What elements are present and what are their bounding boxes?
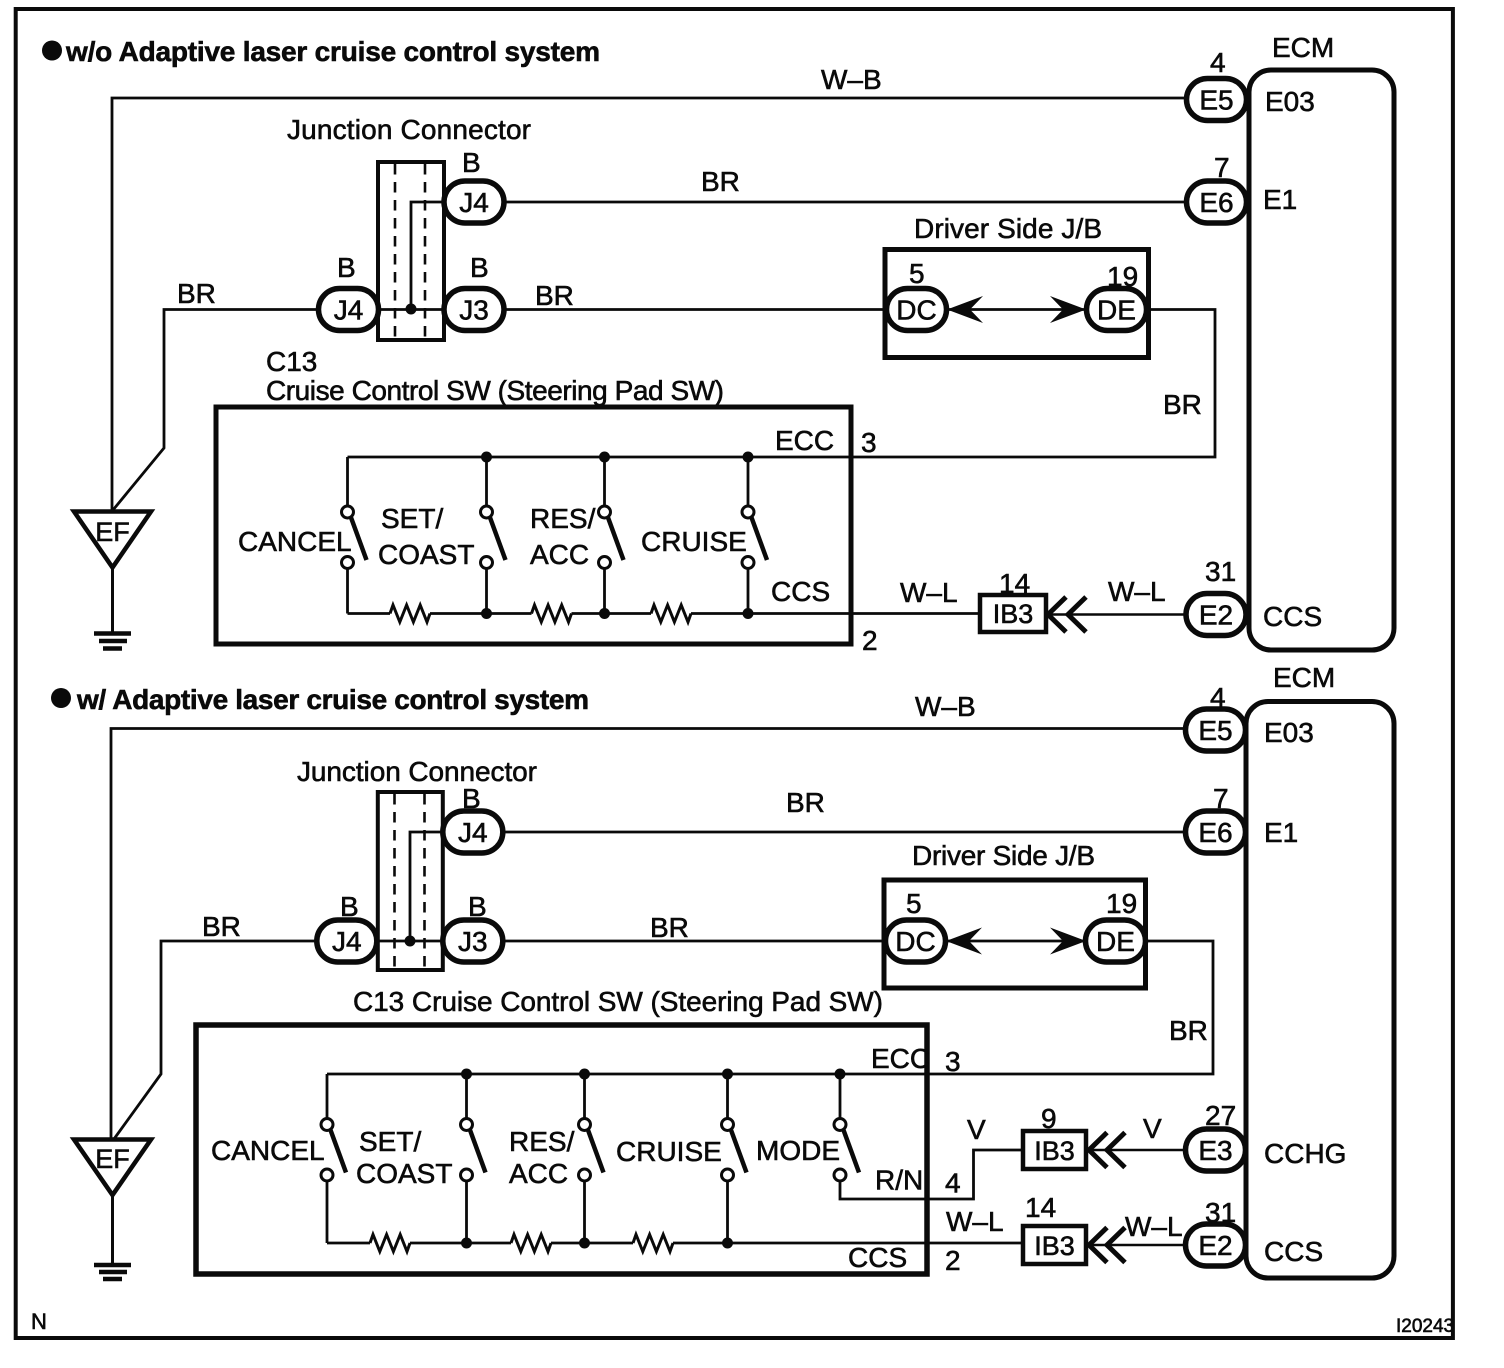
svg-text:J3: J3 — [459, 295, 489, 326]
svg-text:5: 5 — [906, 888, 922, 919]
wire RES lower — [583, 1181, 586, 1243]
svg-text:COAST: COAST — [378, 539, 474, 570]
wire W-B from EF ground to ECM E5 — [112, 98, 1186, 511]
svg-text:4: 4 — [945, 1168, 961, 1199]
chevron arrows — [1089, 1228, 1125, 1263]
relay block IB3 (V) — [1023, 1131, 1086, 1169]
svg-text:J4: J4 — [458, 817, 488, 848]
wire — [430, 612, 532, 615]
node dot SET — [461, 1069, 472, 1080]
wire BR from EF to J4 left — [113, 310, 319, 511]
svg-text:CANCEL: CANCEL — [238, 526, 352, 557]
svg-text:J4: J4 — [334, 295, 364, 326]
wire — [572, 612, 652, 615]
svg-text:V: V — [1143, 1113, 1162, 1144]
node dot — [722, 1238, 733, 1249]
svg-text:DC: DC — [895, 926, 935, 957]
svg-text:CRUISE: CRUISE — [641, 526, 747, 557]
connector J4 (left) — [319, 289, 379, 331]
svg-text:CCHG: CCHG — [1264, 1138, 1346, 1169]
switch CANCEL — [321, 1119, 346, 1182]
svg-text:B: B — [462, 783, 481, 814]
svg-text:BR: BR — [535, 280, 574, 311]
ECM box — [1249, 70, 1394, 650]
wire CANCEL lower — [346, 569, 349, 614]
resistor R1 — [390, 605, 430, 622]
svg-text:W–L: W–L — [946, 1206, 1004, 1237]
svg-text:ECM: ECM — [1273, 662, 1335, 693]
wire SET lower — [485, 569, 488, 614]
wire CCS bus with resistors — [348, 612, 391, 615]
switch SET/COAST — [461, 1119, 486, 1182]
wire IB3 to E3 (V) — [1087, 1149, 1186, 1152]
wire IB3 to E2 (W-L) — [1047, 613, 1186, 616]
connector J4 (left) — [317, 920, 377, 962]
wire IB3 to E2 (W-L) — [1087, 1244, 1186, 1247]
node dot — [579, 1238, 590, 1249]
svg-text:MODE: MODE — [756, 1135, 840, 1166]
svg-text:W–L: W–L — [1108, 576, 1166, 607]
svg-text:31: 31 — [1205, 556, 1236, 587]
svg-text:E6: E6 — [1198, 817, 1232, 848]
section title bullet — [42, 41, 62, 61]
wire — [410, 1242, 511, 1245]
svg-text:IB3: IB3 — [1034, 1231, 1075, 1261]
svg-text:J4: J4 — [459, 187, 489, 218]
wire CANCEL drop — [326, 1074, 329, 1119]
connector DC — [886, 920, 946, 962]
arrowhead right — [1050, 296, 1086, 323]
wire RES drop — [603, 457, 606, 506]
svg-text:ECM: ECM — [1272, 32, 1334, 63]
wire — [551, 1242, 633, 1245]
svg-text:BR: BR — [202, 911, 241, 942]
connector DE — [1087, 289, 1147, 331]
svg-text:IB3: IB3 — [993, 599, 1034, 629]
svg-text:W–L: W–L — [900, 577, 958, 608]
switch MODE — [834, 1119, 859, 1182]
svg-text:14: 14 — [999, 568, 1030, 599]
connector E2 — [1186, 594, 1246, 636]
switch CANCEL — [342, 506, 367, 569]
switch SET/COAST — [481, 506, 506, 569]
svg-text:ACC: ACC — [530, 539, 589, 570]
node dot — [481, 608, 492, 619]
svg-text:CCS: CCS — [848, 1242, 907, 1273]
svg-text:SET/: SET/ — [381, 503, 443, 534]
switch RES/ACC — [599, 506, 624, 569]
wire CRUISE lower — [726, 1181, 729, 1243]
wire CANCEL lower — [326, 1181, 329, 1243]
arrowhead left — [946, 928, 982, 955]
svg-text:B: B — [468, 891, 487, 922]
svg-text:B: B — [462, 147, 481, 178]
svg-text:RES/: RES/ — [509, 1126, 575, 1157]
wire EF stem — [111, 1195, 114, 1265]
svg-text:I20243: I20243 — [1396, 1316, 1454, 1337]
svg-text:BR: BR — [701, 166, 740, 197]
node dot — [461, 1238, 472, 1249]
switch CRUISE — [742, 506, 767, 569]
switch CRUISE — [722, 1119, 747, 1182]
wire inside junction connector — [411, 202, 444, 309]
junction connector body — [378, 162, 444, 340]
ground EF triangle — [74, 512, 151, 568]
svg-text:w/ Adaptive laser cruise contr: w/ Adaptive laser cruise control system — [76, 684, 589, 715]
wire SET drop — [485, 457, 488, 506]
svg-text:DE: DE — [1097, 295, 1136, 326]
wire RES lower — [603, 569, 606, 614]
connector E5 — [1186, 709, 1246, 751]
label RES/ACC — [530, 503, 596, 570]
svg-text:ECC: ECC — [775, 425, 834, 456]
junction block box — [885, 250, 1149, 358]
svg-text:w/o Adaptive laser cruise cont: w/o Adaptive laser cruise control system — [65, 36, 600, 67]
svg-text:7: 7 — [1214, 152, 1230, 183]
wire BR from EF to J4 left — [114, 941, 317, 1139]
resistor R3 — [651, 605, 691, 622]
arrowhead right — [1050, 928, 1086, 955]
svg-text:BR: BR — [650, 912, 689, 943]
wire CRUISE drop — [747, 457, 750, 506]
svg-text:E6: E6 — [1199, 187, 1233, 218]
svg-text:BR: BR — [177, 278, 216, 309]
wire J3 to DC (BR) — [503, 940, 887, 943]
node dot RES — [579, 1069, 590, 1080]
svg-text:14: 14 — [1025, 1192, 1056, 1223]
node dot CRUISE — [743, 452, 754, 463]
wire MODE drop — [839, 1074, 842, 1119]
svg-text:5: 5 — [909, 258, 925, 289]
cruise control switch box C13 — [216, 407, 851, 644]
node junction dot — [405, 936, 416, 947]
svg-text:19: 19 — [1106, 888, 1137, 919]
node junction dot — [406, 304, 417, 315]
chevron arrows — [1048, 597, 1086, 632]
label SET/COAST — [356, 1126, 452, 1189]
svg-text:J4: J4 — [332, 926, 362, 957]
svg-text:E03: E03 — [1265, 86, 1315, 117]
chevron arrows — [1089, 1133, 1125, 1168]
resistor R1 — [370, 1235, 410, 1252]
relay block IB3 (W-L) — [1023, 1226, 1086, 1264]
svg-text:2: 2 — [862, 625, 878, 656]
svg-text:E1: E1 — [1263, 184, 1297, 215]
svg-text:EF: EF — [95, 1144, 130, 1174]
svg-text:CANCEL: CANCEL — [211, 1135, 325, 1166]
svg-text:W–B: W–B — [821, 64, 882, 95]
svg-text:B: B — [340, 891, 359, 922]
connector E6 — [1187, 181, 1247, 223]
wire CANCEL drop — [346, 457, 349, 506]
wire R/N from MODE — [840, 1150, 1023, 1199]
connector DC — [887, 289, 947, 331]
svg-text:E5: E5 — [1199, 85, 1233, 116]
svg-text:CRUISE: CRUISE — [616, 1136, 722, 1167]
arrowhead left — [947, 296, 983, 323]
svg-text:Driver Side J/B: Driver Side J/B — [912, 840, 1095, 871]
wire CRUISE drop — [726, 1074, 729, 1119]
svg-text:Cruise Control SW (Steering Pa: Cruise Control SW (Steering Pad SW) — [266, 375, 724, 406]
ground EF triangle — [74, 1140, 151, 1196]
svg-text:ECC: ECC — [871, 1043, 930, 1074]
relay block IB3 — [980, 595, 1046, 632]
svg-text:E5: E5 — [1198, 715, 1232, 746]
wire J4 to ECM E6 (BR) — [504, 201, 1186, 204]
connector J4 (top) — [443, 811, 503, 853]
wire CCS bus with resistors — [327, 1242, 370, 1245]
wire CRUISE lower — [747, 569, 750, 614]
svg-text:J3: J3 — [458, 926, 488, 957]
wire ECC bus — [327, 941, 1213, 1074]
connector E3 — [1186, 1129, 1246, 1171]
svg-text:BR: BR — [1169, 1015, 1208, 1046]
node dot — [599, 608, 610, 619]
connector E5 — [1187, 79, 1247, 121]
svg-text:W–L: W–L — [1125, 1211, 1183, 1242]
connector E2 — [1186, 1224, 1246, 1266]
svg-text:3: 3 — [861, 427, 877, 458]
wire EF stem — [111, 568, 114, 634]
svg-text:EF: EF — [95, 517, 130, 547]
junction block box — [884, 880, 1146, 988]
junction connector body — [378, 792, 443, 970]
connector J3 — [444, 289, 504, 331]
wire inside junction connector — [410, 832, 443, 941]
wire CCS to IB3 — [691, 612, 980, 615]
wire CCS to IB3 — [673, 1242, 1023, 1245]
svg-text:DC: DC — [896, 295, 936, 326]
ground symbol — [94, 634, 131, 649]
svg-text:C13: C13 — [266, 346, 317, 377]
svg-text:E3: E3 — [1198, 1135, 1232, 1166]
svg-text:27: 27 — [1205, 1100, 1236, 1131]
connector DE — [1086, 920, 1146, 962]
svg-text:BR: BR — [1163, 389, 1202, 420]
wire ECC bus — [348, 310, 1216, 458]
connector J3 — [443, 920, 503, 962]
svg-text:B: B — [337, 252, 356, 283]
svg-text:4: 4 — [1210, 47, 1226, 78]
node dot — [743, 608, 754, 619]
svg-text:V: V — [967, 1114, 986, 1145]
svg-text:ACC: ACC — [509, 1158, 568, 1189]
svg-text:CCS: CCS — [1263, 601, 1322, 632]
label RES/ACC — [509, 1126, 575, 1189]
connector J4 (top) — [444, 181, 504, 223]
node dot RES — [599, 452, 610, 463]
svg-text:E2: E2 — [1199, 600, 1233, 631]
svg-text:COAST: COAST — [356, 1158, 452, 1189]
svg-text:9: 9 — [1041, 1103, 1057, 1134]
svg-text:CCS: CCS — [1264, 1236, 1323, 1267]
svg-text:IB3: IB3 — [1034, 1136, 1075, 1166]
svg-text:E03: E03 — [1264, 717, 1314, 748]
section title bullet — [51, 688, 71, 708]
svg-text:7: 7 — [1213, 783, 1229, 814]
svg-text:RES/: RES/ — [530, 503, 596, 534]
wire SET lower — [465, 1181, 468, 1243]
cruise control switch box C13 — [196, 1025, 927, 1274]
svg-text:C13 Cruise Control SW (Steerin: C13 Cruise Control SW (Steering Pad SW) — [353, 986, 883, 1017]
svg-text:E1: E1 — [1264, 817, 1298, 848]
switch RES/ACC — [579, 1119, 604, 1182]
wire RES drop — [583, 1074, 586, 1119]
ECM box — [1246, 702, 1394, 1279]
svg-text:4: 4 — [1210, 682, 1226, 713]
svg-text:B: B — [470, 252, 489, 283]
ground symbol — [94, 1265, 131, 1279]
svg-text:Driver Side J/B: Driver Side J/B — [914, 213, 1102, 244]
svg-text:CCS: CCS — [771, 576, 830, 607]
label SET/COAST — [378, 503, 474, 570]
svg-text:2: 2 — [945, 1245, 961, 1276]
wire J3 to DC (BR) — [504, 308, 887, 311]
svg-text:E2: E2 — [1198, 1230, 1232, 1261]
node dot CRUISE — [722, 1069, 733, 1080]
svg-text:Junction Connector: Junction Connector — [297, 756, 537, 787]
node dot SET — [481, 452, 492, 463]
svg-text:31: 31 — [1205, 1197, 1236, 1228]
resistor R2 — [511, 1235, 551, 1252]
svg-text:BR: BR — [786, 787, 825, 818]
resistor R3 — [633, 1235, 673, 1252]
svg-text:3: 3 — [945, 1046, 961, 1077]
svg-text:N: N — [31, 1309, 47, 1334]
wire SET drop — [465, 1074, 468, 1119]
svg-text:Junction Connector: Junction Connector — [287, 114, 531, 145]
svg-text:W–B: W–B — [915, 691, 976, 722]
svg-text:DE: DE — [1096, 926, 1135, 957]
node dot MODE — [835, 1069, 846, 1080]
wire J4 to E6 (BR) — [503, 831, 1186, 834]
resistor R2 — [532, 605, 572, 622]
svg-text:SET/: SET/ — [359, 1126, 421, 1157]
wire W-B from EF to E5 — [111, 729, 1185, 1140]
wire DC to DE — [946, 940, 1086, 943]
connector E6 — [1186, 811, 1246, 853]
wire DC to DE — [947, 308, 1087, 311]
svg-text:R/N: R/N — [875, 1165, 923, 1196]
